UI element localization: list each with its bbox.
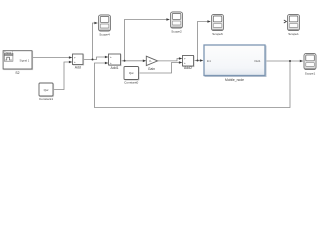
junction dot on Add-Add1 wire (92, 59, 94, 61)
block Scope6 (211, 14, 223, 30)
svg-text:Qw: Qw (44, 88, 49, 92)
svg-text:In1: In1 (207, 59, 211, 63)
wire: Add1 output to Gain input (121, 60, 147, 63)
block Add2 (183, 56, 195, 67)
block Constant0 (124, 67, 139, 81)
wire: Constant0 output to Add2 in2 (139, 61, 183, 73)
block Constant1 (39, 83, 54, 97)
svg-text:Scope4: Scope4 (99, 33, 110, 37)
svg-text:S2: S2 (15, 71, 19, 75)
junction dot on Out1 wire (feedback takeoff) (289, 60, 291, 62)
svg-text:+: + (74, 60, 76, 64)
wire: Add output to Add1 in1 (83, 56, 108, 60)
svg-text:+: + (110, 61, 112, 65)
block Scope4 (98, 15, 110, 31)
svg-text:Add1: Add1 (111, 66, 119, 70)
wire: feedback from Out1 down, left, up to Add1 in2 (95, 61, 291, 108)
junction dot on Add2-Mobile_node wire (197, 60, 199, 62)
block subsystem Mobile_node (204, 45, 266, 77)
svg-text:+: + (74, 56, 76, 60)
svg-text:Constant1: Constant1 (39, 97, 53, 101)
block Gain (146, 56, 157, 65)
svg-text:Scope1: Scope1 (288, 32, 299, 36)
svg-text:Add2: Add2 (184, 66, 192, 70)
wire: Gain output to Add2 in1 (158, 57, 183, 61)
svg-text:+: + (184, 61, 186, 65)
svg-text:Qw: Qw (129, 71, 134, 75)
svg-text:Gain: Gain (148, 67, 155, 71)
block Scope1 (unconnected input port) (284, 14, 300, 30)
svg-text:Mobile_node: Mobile_node (225, 78, 244, 82)
svg-text:K-: K- (149, 60, 152, 63)
svg-text:Constant0: Constant0 (124, 81, 138, 85)
block Add (73, 54, 84, 65)
svg-text:Add: Add (75, 66, 81, 70)
wire: Signal Builder S2 output to Add in1 (32, 56, 72, 59)
wire: tap up to Scope4 (93, 22, 98, 60)
block Scope (right) (304, 53, 316, 69)
block Signal Builder S2 (3, 50, 33, 69)
svg-text:Scope1: Scope1 (305, 71, 316, 75)
wire: tap up to Scope2 (125, 18, 170, 61)
wire: Constant1 output up to Add in2 (53, 61, 72, 90)
junction dot on Add1-Gain wire (124, 60, 126, 62)
svg-text:Out1: Out1 (254, 59, 261, 63)
wire: tap up to Scope6 (198, 20, 211, 60)
block Add1 (109, 54, 122, 66)
svg-text:Signal 1: Signal 1 (20, 58, 30, 62)
svg-text:+: + (110, 55, 112, 59)
wire: Add2 output to Mobile_node In1 (194, 59, 204, 62)
wire: Mobile_node Out1 to Scope (265, 60, 303, 63)
svg-text:Scope6: Scope6 (212, 32, 223, 36)
svg-text:Scope2: Scope2 (171, 29, 182, 33)
block Scope2 (170, 12, 182, 28)
